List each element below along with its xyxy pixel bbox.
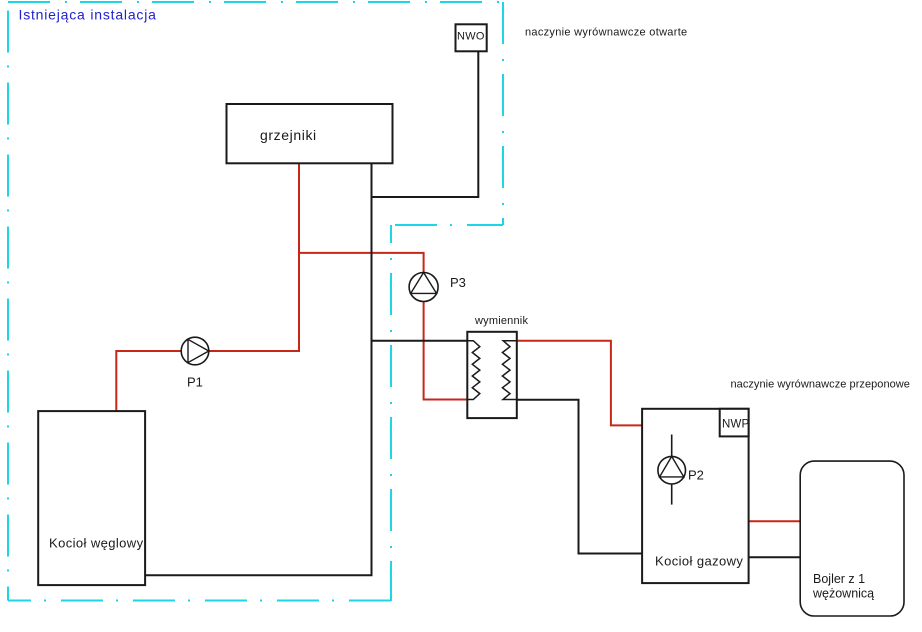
kociol weglowy box: [38, 411, 145, 585]
wire: black NWO drop line: [372, 51, 479, 197]
svg-text:NWO: NWO: [457, 31, 485, 43]
cyan dashed boundary: step horizontal: [391, 224, 503, 226]
wymiennik left coil: [467, 341, 480, 400]
wire: black feed to wymiennik left top: [372, 340, 468, 342]
svg-text:Kocioł gazowy: Kocioł gazowy: [655, 554, 743, 569]
P2 pipe stub: [671, 435, 673, 505]
svg-text:Kocioł węglowy: Kocioł węglowy: [49, 536, 144, 551]
svg-text:P3: P3: [450, 275, 466, 290]
bojler rounded box: [800, 461, 904, 616]
svg-text:P1: P1: [187, 375, 203, 390]
wire: black kociol gazowy to bojler: [749, 556, 801, 558]
wire: black wymiennik right bottom to kociol gazowy: [517, 400, 642, 554]
pump P3: [409, 273, 438, 302]
grzejniki box: [227, 104, 393, 163]
wire: red wymiennik right to kociol gazowy: [517, 341, 642, 426]
cyan dashed boundary: bottom edge: [8, 600, 391, 602]
svg-text:wężownicą: wężownicą: [812, 587, 874, 601]
cyan dashed boundary: left edge: [7, 2, 9, 601]
svg-text:grzejniki: grzejniki: [260, 127, 317, 143]
wire: red branch to P3 and wymiennik left bottom: [299, 253, 467, 400]
wymiennik right coil: [502, 341, 516, 400]
kociol gazowy box: [642, 409, 749, 583]
cyan dashed boundary: right upper edge: [502, 2, 504, 225]
pump P1: [181, 337, 209, 365]
NWP box: [720, 409, 749, 437]
svg-text:Bojler z 1: Bojler z 1: [813, 572, 865, 586]
svg-text:naczynie wyrównawcze przeponow: naczynie wyrównawcze przeponowe: [731, 379, 910, 391]
svg-text:wymiennik: wymiennik: [474, 315, 528, 327]
wire: red riser to grzejniki: [298, 163, 300, 352]
wymiennik box: [467, 332, 517, 418]
cyan dashed boundary: inner vertical: [390, 225, 392, 601]
svg-text:P2: P2: [688, 468, 704, 483]
cyan dashed boundary: top edge: [8, 1, 503, 3]
pump P2: [658, 456, 686, 484]
svg-text:NWP: NWP: [722, 419, 750, 431]
wire: red supply kociol weglowy to P1: [116, 351, 299, 411]
wire: red kociol gazowy to bojler: [749, 520, 801, 522]
wire: black return riser from grzejniki: [145, 163, 371, 575]
svg-text:naczynie wyrównawcze otwarte: naczynie wyrównawcze otwarte: [525, 27, 687, 39]
svg-text:Istniejąca instalacja: Istniejąca instalacja: [19, 7, 157, 23]
NWO box: [456, 24, 487, 51]
